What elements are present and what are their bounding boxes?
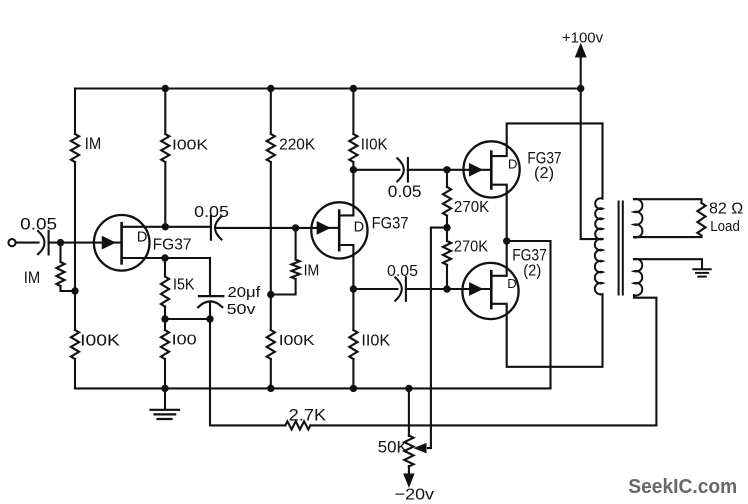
svg-text:20μf: 20μf	[228, 284, 262, 301]
svg-text:0.05: 0.05	[388, 183, 422, 201]
wire load bottom to secondary	[634, 236, 702, 238]
junction ground bus x271	[267, 385, 274, 392]
svg-text:II0K: II0K	[361, 137, 389, 154]
junction top bus x165	[162, 85, 169, 92]
wire bus to pot	[408, 388, 410, 436]
wire pot wiper	[428, 228, 447, 449]
gate arrow Q3	[470, 165, 481, 175]
svg-text:FG37: FG37	[153, 237, 192, 254]
wire bottom bus	[75, 387, 551, 389]
transformer T1 secondary upper	[634, 199, 642, 238]
svg-text:I5K: I5K	[173, 277, 195, 294]
wire rail4 upper	[352, 89, 354, 135]
junction Q4 gate node	[443, 285, 450, 292]
svg-text:0.05: 0.05	[194, 204, 229, 221]
svg-text:2.7K: 2.7K	[289, 407, 326, 425]
junction 110K drive node	[350, 166, 357, 173]
resistor R10 110K	[349, 330, 357, 359]
wire Q1 drain to C2	[165, 226, 211, 228]
svg-text:D: D	[507, 276, 516, 291]
resistor R13 270K	[443, 228, 451, 289]
capacitor C3 20uf	[198, 296, 223, 319]
svg-text:I00: I00	[172, 333, 197, 349]
svg-text:0.05: 0.05	[20, 216, 57, 234]
wire node to C4	[353, 169, 399, 171]
node input terminal	[8, 239, 15, 246]
junction R11 to 220K rail	[267, 291, 274, 298]
resistor R7 15K	[161, 277, 169, 307]
wire Q2 drain lead	[339, 170, 353, 216]
svg-text:50v: 50v	[227, 301, 256, 318]
wire source node to bus	[507, 241, 551, 388]
svg-text:I00K: I00K	[172, 137, 208, 153]
resistor R4 220K	[267, 134, 275, 162]
junction Q3 gate node	[443, 166, 450, 173]
transistor Q2 FG37	[311, 202, 367, 258]
wire top bus +100v rail	[75, 87, 581, 89]
resistor R16 82 ohm load	[697, 203, 705, 236]
wire Q2 source to C5	[353, 288, 397, 290]
svg-text:D: D	[508, 157, 518, 172]
transformer T1 primary upper	[595, 198, 602, 239]
junction 15K-100 node	[161, 315, 168, 322]
transistor Q3 FG37 (2)	[464, 141, 520, 197]
wire gate arrow to Q3 bar	[470, 169, 491, 171]
wire C3 bottom to feedback	[210, 319, 285, 425]
wire rail2 upper	[164, 89, 166, 135]
svg-text:50K: 50K	[378, 439, 408, 457]
wire node to 100	[164, 319, 166, 330]
junction input node	[57, 239, 64, 246]
transistor Q1 FG37	[94, 215, 150, 271]
junction ground bus x165	[161, 385, 168, 392]
svg-text:D: D	[354, 220, 364, 236]
wire +100v to center tap	[581, 89, 603, 240]
junction Q2 gate bias node	[292, 224, 299, 231]
resistor R11 1M	[271, 228, 300, 295]
resistor R8 100	[161, 330, 169, 359]
wire C2 to Q2 gate	[216, 227, 328, 229]
transformer T1 secondary lower	[634, 259, 642, 296]
supply -20v arrow	[405, 475, 413, 486]
svg-text:270K: 270K	[454, 199, 490, 216]
junction R1 to left rail	[71, 287, 78, 294]
supply +100v arrow	[576, 46, 585, 57]
svg-text:270K: 270K	[454, 239, 488, 256]
svg-text:82 Ω: 82 Ω	[709, 201, 743, 218]
junction top bus x353	[350, 85, 357, 92]
wire rail3 upper	[270, 89, 272, 135]
wire feedback to secondary	[310, 295, 656, 425]
wire pot to -20v	[408, 466, 410, 474]
wire 100 top to C3 bottom	[165, 318, 210, 320]
wire Q3 source lead	[491, 185, 506, 241]
transformer T1 core	[619, 202, 623, 295]
resistor R1 1M input bias	[56, 243, 75, 291]
wire Q1 source to 15K	[164, 258, 166, 277]
resistor R15 50K pot	[404, 436, 413, 467]
svg-text:IM: IM	[24, 268, 40, 287]
junction Q1 drain node	[162, 223, 169, 230]
gate arrow Q4	[470, 284, 481, 294]
wire left rail upper	[74, 89, 76, 135]
svg-text:FG37: FG37	[372, 214, 409, 233]
ground G2	[693, 269, 710, 276]
junction Q3 source Q4 drain node	[503, 237, 510, 244]
wire left rail middle	[74, 162, 76, 330]
transformer T1 primary lower	[595, 239, 603, 295]
svg-text:I00K: I00K	[279, 332, 315, 349]
resistor R6 100K	[71, 330, 79, 359]
svg-text:−20v: −20v	[395, 487, 434, 504]
svg-text:0.05: 0.05	[387, 263, 418, 280]
svg-text:SeekIC.com: SeekIC.com	[628, 476, 737, 498]
wire secondary to load top	[634, 199, 702, 203]
wire input to C1	[16, 242, 39, 244]
svg-text:I00K: I00K	[80, 332, 120, 349]
wire rail3 lower	[270, 359, 272, 388]
junction bottom bus pot feed	[405, 385, 412, 392]
ground G1	[151, 388, 180, 419]
wire +100v feed	[580, 53, 582, 89]
wire Q1 source to C3	[165, 258, 210, 296]
wire rail3 middle	[270, 162, 272, 330]
junction top bus +100v feed	[577, 85, 584, 92]
svg-text:(2): (2)	[523, 262, 541, 279]
pot wiper arrow	[416, 444, 425, 451]
junction Q1 source node	[161, 254, 168, 261]
gate arrow Q1	[103, 237, 114, 247]
wire Q4 drain lead	[491, 241, 506, 276]
svg-text:IM: IM	[85, 134, 101, 153]
wire Q2 source to 110K	[352, 289, 354, 330]
transistor Q4 FG37 (2)	[462, 263, 518, 319]
resistor R14 2.7K	[285, 421, 310, 429]
wire gate arrow to Q2 bar	[327, 227, 339, 229]
wire Q2 source lead	[339, 245, 353, 289]
wire Q1 source	[122, 257, 165, 259]
junction top bus x271	[267, 85, 274, 92]
junction Q2 source node	[350, 285, 357, 292]
junction ground bus x353	[350, 385, 357, 392]
wire Q1 drain	[122, 226, 166, 228]
wire Q3 drain to transformer	[491, 123, 602, 198]
wire C5 to Q4 gate	[406, 288, 470, 290]
wire rail4 to node	[352, 162, 354, 170]
resistor R9 100K	[267, 330, 275, 359]
wire gate arrow to Q1 bar	[103, 242, 122, 244]
gate arrow Q2	[318, 223, 329, 233]
wire rail4 lower	[352, 359, 354, 388]
wire C4 to Q3 gate	[408, 169, 470, 171]
junction 270K midpoint	[443, 224, 450, 231]
capacitor C4 0.05	[397, 158, 408, 182]
wire 100 to ground bus	[164, 359, 166, 388]
capacitor C5 0.05	[395, 277, 406, 301]
wire C1 to Q1 gate	[49, 242, 103, 244]
svg-text:Load: Load	[710, 218, 740, 235]
wire Q4 source to transformer	[491, 294, 602, 367]
wire gate arrow to Q4 bar	[470, 288, 491, 290]
resistor R3 100K	[161, 134, 169, 162]
resistor R5 110K	[349, 134, 357, 162]
svg-text:+100v: +100v	[562, 30, 604, 46]
resistor R12 270K	[443, 170, 451, 228]
svg-text:220K: 220K	[279, 136, 316, 153]
svg-text:IM: IM	[304, 262, 320, 279]
wire rail2 to Q1 drain	[164, 162, 166, 227]
junction C3 bottom node	[206, 315, 213, 322]
wire secondary lower to ground	[634, 259, 702, 269]
svg-text:II0K: II0K	[361, 332, 390, 349]
wire 15K to 100 node	[164, 307, 166, 320]
capacitor C2 0.05	[211, 216, 222, 240]
resistor R2 1M	[71, 134, 79, 162]
wire left rail lower	[74, 359, 76, 388]
svg-text:D: D	[137, 229, 148, 245]
svg-text:(2): (2)	[534, 165, 554, 182]
capacitor C1 0.05	[38, 231, 49, 255]
